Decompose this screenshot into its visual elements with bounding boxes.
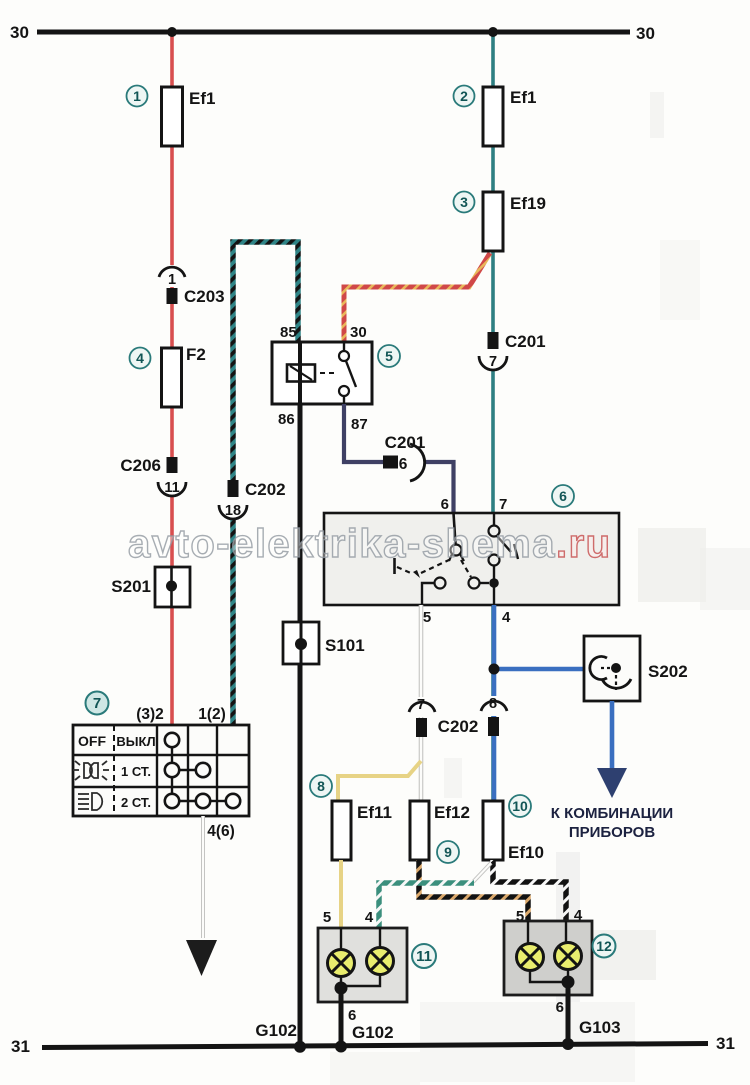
splice S101 xyxy=(283,622,365,664)
node G102 splice left xyxy=(294,1041,306,1053)
svg-text:30: 30 xyxy=(636,24,655,43)
wire teal from bus30 down to C201 (x=493) xyxy=(491,32,495,801)
wire black lamp12 pin6 to bus31 xyxy=(566,982,571,1045)
svg-text:5: 5 xyxy=(323,909,331,926)
connector C201 half 6 horizontal xyxy=(398,444,425,481)
svg-text:12: 12 xyxy=(596,938,612,954)
connector C203 pin xyxy=(167,287,225,306)
svg-text:1: 1 xyxy=(168,272,176,288)
speed sensor S202 xyxy=(584,636,688,701)
svg-text:11: 11 xyxy=(164,480,179,496)
fuse Ef11 xyxy=(332,801,392,860)
svg-text:S201: S201 xyxy=(111,577,151,596)
svg-text:C202: C202 xyxy=(438,717,479,736)
connector C202 pin left xyxy=(416,718,427,737)
svg-text:S202: S202 xyxy=(648,662,688,681)
relay coil xyxy=(287,342,315,404)
fuse Ef19 xyxy=(483,192,546,251)
callout circle 10 xyxy=(509,795,531,817)
svg-text:OFF: OFF xyxy=(78,733,106,749)
fuse F2 xyxy=(162,345,206,407)
svg-text:2 СТ.: 2 СТ. xyxy=(121,795,151,810)
svg-text:S101: S101 xyxy=(325,636,365,655)
svg-text:Ef1: Ef1 xyxy=(510,88,536,107)
box6 internal contact from pin6 xyxy=(449,513,464,561)
node blue junction xyxy=(489,664,500,675)
wire yellow branch to Ef11 xyxy=(338,761,421,801)
svg-text:4: 4 xyxy=(502,609,511,626)
svg-text:87: 87 xyxy=(351,416,368,433)
lamp unit 12 internal ground link xyxy=(530,970,575,989)
callout circle 8 xyxy=(310,775,332,797)
connector C203 half xyxy=(159,265,185,288)
svg-text:7: 7 xyxy=(489,354,497,370)
connector C202 pin on hatched wire xyxy=(228,480,286,499)
svg-text:6: 6 xyxy=(559,488,567,504)
wire red from bus30 down to switch (x=172) xyxy=(170,32,174,725)
wire hatched green/white to left lamp pin4 xyxy=(379,883,474,928)
svg-text:avto-elektrika-shema.ru: avto-elektrika-shema.ru xyxy=(128,522,612,566)
dimmer switch box U6 xyxy=(324,513,619,605)
svg-text:ПРИБОРОВ: ПРИБОРОВ xyxy=(569,824,655,841)
fuse Ef1 left xyxy=(162,87,216,146)
connector C202 half 8 xyxy=(481,696,507,716)
bus 30 xyxy=(37,30,630,35)
arrow to instrument cluster xyxy=(597,768,627,798)
splice S201 xyxy=(111,567,190,607)
wire blue from S202 down xyxy=(610,701,615,769)
connector C202 half 7 xyxy=(409,697,435,717)
svg-text:C206: C206 xyxy=(120,456,161,475)
svg-text:7: 7 xyxy=(93,695,101,712)
wire hatched black/white Ef10 to right lamp pin4 xyxy=(493,860,566,921)
svg-text:F2: F2 xyxy=(186,345,206,364)
svg-text:C202: C202 xyxy=(245,480,286,499)
arrow ground-side end xyxy=(186,940,217,976)
lamp L2 xyxy=(367,948,394,975)
lamp unit 11 box xyxy=(318,928,407,1002)
relay contact xyxy=(320,342,356,404)
wire hatched red/yellow Ef19 to relay pin30 xyxy=(344,253,490,344)
callout circle 2 xyxy=(454,86,475,107)
svg-text:Ef1: Ef1 xyxy=(189,89,215,108)
fuse Ef10 xyxy=(483,801,544,862)
lamp L1 xyxy=(328,950,355,977)
svg-text:Ef19: Ef19 xyxy=(510,194,546,213)
node junction bus30-red xyxy=(167,27,177,37)
svg-text:7: 7 xyxy=(499,496,507,513)
box6 internal contact chain pin7 to pin4 xyxy=(489,513,519,605)
headlight switch table xyxy=(73,725,249,816)
node junction bus30-teal xyxy=(488,27,498,37)
callout circle 7 xyxy=(86,692,109,715)
svg-text:C203: C203 xyxy=(184,287,225,306)
svg-text:Ef11: Ef11 xyxy=(357,803,392,822)
svg-text:31: 31 xyxy=(11,1037,30,1056)
svg-text:4: 4 xyxy=(365,909,374,926)
callout circle 5 xyxy=(378,345,400,367)
svg-text:6: 6 xyxy=(348,1007,356,1024)
svg-text:86: 86 xyxy=(278,411,295,428)
box6 internal dashed linkage xyxy=(395,558,472,578)
connector C202 pin right xyxy=(488,717,499,736)
fuse Ef1 right xyxy=(483,87,536,146)
svg-text:G102: G102 xyxy=(352,1023,394,1042)
svg-text:C201: C201 xyxy=(505,332,546,351)
svg-text:31: 31 xyxy=(716,1034,735,1053)
scan artifact patches xyxy=(330,92,750,1085)
connector C201 pin on teal wire xyxy=(488,332,546,351)
bus 31 xyxy=(42,1044,708,1048)
lamp L3 xyxy=(517,944,544,971)
connector C202 half 18 xyxy=(219,497,247,519)
svg-text:ВЫКЛ: ВЫКЛ xyxy=(116,734,155,749)
node G102 splice right xyxy=(335,1041,347,1053)
svg-text:6: 6 xyxy=(556,999,564,1016)
lamp unit 12 box xyxy=(504,921,592,995)
svg-text:Ef12: Ef12 xyxy=(434,803,470,822)
wire navy from relay 87 to box pin 6 xyxy=(344,404,454,513)
wire blue from box pin4 xyxy=(492,605,497,801)
svg-text:1(2): 1(2) xyxy=(198,706,226,723)
svg-text:4(6): 4(6) xyxy=(207,823,235,840)
callout circle 9 xyxy=(437,841,459,863)
svg-text:6: 6 xyxy=(399,456,408,473)
watermark xyxy=(128,522,612,566)
wire hatched teal loop from relay 85 to light switch xyxy=(233,242,298,727)
wire white diagonal from Ef10 xyxy=(473,863,491,882)
svg-text:10: 10 xyxy=(512,798,528,814)
svg-text:(3)2: (3)2 xyxy=(136,706,164,723)
callout circle 4 xyxy=(130,348,151,369)
lamp L4 xyxy=(555,943,582,970)
wire white from switch pin 4(6) down xyxy=(201,816,205,938)
svg-text:3: 3 xyxy=(460,194,468,210)
svg-text:Ef10: Ef10 xyxy=(508,843,544,862)
wire yellow Ef11 to left lamp pin5 xyxy=(339,860,343,928)
connector C201 half 7 xyxy=(479,349,507,370)
text to instrument cluster xyxy=(551,805,673,841)
svg-text:2: 2 xyxy=(460,88,468,104)
svg-text:1: 1 xyxy=(133,88,141,104)
svg-text:8: 8 xyxy=(317,778,325,794)
lamp unit 11 internal ground link xyxy=(335,975,381,995)
relay K? pins 85 30 86 87 xyxy=(272,324,372,433)
svg-text:1 СТ.: 1 СТ. xyxy=(121,764,151,779)
icon parking lights xyxy=(73,761,109,780)
box6 internal contact to pin5 xyxy=(422,578,489,606)
wire white from box pin5 down to Ef12 xyxy=(419,605,424,801)
wire black lamp11 pin6 to bus31 xyxy=(339,988,344,1048)
svg-text:30: 30 xyxy=(350,324,367,341)
callout circle 1 xyxy=(127,86,148,107)
callout circle 12 xyxy=(593,935,616,958)
svg-text:18: 18 xyxy=(225,503,241,519)
svg-text:8: 8 xyxy=(489,696,497,712)
connector C201 pin horizontal xyxy=(383,433,425,469)
svg-text:11: 11 xyxy=(416,948,432,965)
callout circle 11 xyxy=(412,944,436,968)
node G103 splice xyxy=(562,1038,574,1050)
svg-text:5: 5 xyxy=(385,348,393,364)
wire hatched black/orange Ef12 to right lamp pin5 xyxy=(419,860,528,922)
svg-text:85: 85 xyxy=(280,324,297,341)
icon headlight xyxy=(78,793,102,810)
svg-text:9: 9 xyxy=(444,844,452,860)
fuse Ef12 xyxy=(410,801,470,860)
svg-text:G102: G102 xyxy=(255,1021,297,1040)
svg-text:5: 5 xyxy=(423,609,431,626)
connector C206 half xyxy=(158,473,186,496)
wire black from relay 86 to bus 31 xyxy=(298,404,303,1048)
svg-text:К КОМБИНАЦИИ: К КОМБИНАЦИИ xyxy=(551,805,673,822)
callout circle 3 xyxy=(454,192,475,213)
svg-text:7: 7 xyxy=(417,697,425,713)
svg-text:G103: G103 xyxy=(579,1018,621,1037)
svg-text:4: 4 xyxy=(136,350,144,366)
connector C206 pin xyxy=(120,456,177,475)
callout circle 6 xyxy=(552,485,574,507)
switch contacts column3 xyxy=(165,733,240,808)
svg-text:30: 30 xyxy=(10,23,29,42)
svg-text:6: 6 xyxy=(441,496,449,513)
wire blue branch to S202 xyxy=(494,667,584,672)
